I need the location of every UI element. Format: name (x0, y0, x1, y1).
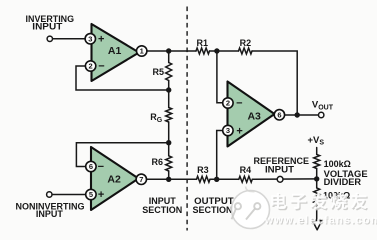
label OUTPUT SECTION (193, 196, 235, 215)
op-amp A3 (228, 82, 275, 147)
label INPUT SECTION (142, 196, 182, 215)
wire R1 to R2 (210, 50, 239, 52)
svg-text:INPUT: INPUT (32, 21, 63, 31)
ground (312, 221, 322, 230)
wire A2 output / bottom rail to R3 (147, 178, 197, 180)
wire R6 bottom lead (168, 171, 170, 179)
pin 7 of A2 (136, 174, 146, 184)
op-amp A1 (92, 24, 140, 81)
wire R3 to R4 (210, 178, 239, 180)
svg-text:+: + (98, 34, 104, 46)
node A1out/R5/R1 (166, 48, 171, 53)
svg-text:R5: R5 (152, 67, 164, 77)
svg-text:SECTION: SECTION (193, 205, 233, 215)
resistor R2 (239, 48, 253, 54)
node divider/reference (314, 176, 319, 181)
pin 5 of A2 (86, 189, 96, 199)
resistor RG (166, 108, 172, 123)
svg-text:INPUT: INPUT (36, 209, 64, 219)
svg-text:−: − (98, 161, 104, 173)
svg-text:SECTION: SECTION (142, 205, 182, 215)
resistor R6 (166, 156, 172, 171)
svg-text:6: 6 (89, 162, 93, 171)
resistor R1 (196, 48, 210, 54)
wire inverting input to A1 pin3 (53, 38, 86, 40)
svg-text:5: 5 (89, 190, 93, 199)
svg-text:R2: R2 (240, 38, 252, 48)
svg-text:6: 6 (277, 110, 281, 119)
pin 2 of A3 (223, 98, 233, 108)
wire node R3R4 up to A3 pin3 (217, 131, 223, 180)
watermark text dianzifashaoyou (271, 193, 367, 210)
pin 3 of A1 (85, 34, 95, 44)
wire A2 feedback pin6 to RG/R6 node (76, 143, 168, 167)
svg-text:2: 2 (226, 99, 230, 108)
svg-text:R4: R4 (240, 165, 252, 175)
wire A1 output / top rail to R1 (147, 50, 196, 52)
resistor R3 (197, 176, 211, 182)
pin 3 of A3 (223, 125, 233, 135)
resistor 100k top (314, 154, 320, 168)
svg-text:+: + (236, 125, 242, 137)
node R3/R4/A3pin3 (214, 177, 219, 182)
svg-text:1: 1 (140, 47, 144, 56)
svg-text:A3: A3 (247, 110, 261, 122)
svg-text:2: 2 (89, 62, 93, 71)
wire +Vs down to 100k (316, 148, 318, 155)
label REFERENCE INPUT (254, 156, 310, 175)
svg-text:100kΩ: 100kΩ (324, 159, 351, 169)
wire to ground (316, 203, 318, 220)
svg-text:DIVIDER: DIVIDER (324, 177, 362, 187)
node RG/R6 feedback A2 (166, 140, 171, 145)
pin 6 of A3 (274, 110, 284, 120)
svg-text:R3: R3 (197, 165, 209, 175)
svg-text:INPUT: INPUT (265, 164, 295, 174)
watermark logo disc (232, 187, 270, 229)
node R1/R2/A3pin2 (214, 48, 219, 53)
section divider dashed line (186, 7, 188, 231)
wire RG to R6 (168, 122, 170, 156)
terminal reference input (277, 176, 283, 182)
wire R5 to RG (168, 81, 170, 108)
svg-text:R6: R6 (152, 157, 164, 167)
pin 6 of A2 (86, 161, 96, 171)
label INVERTING INPUT (26, 14, 75, 32)
wire R4 to divider node (reference line) (252, 178, 316, 180)
resistor 100k bottom (314, 188, 320, 204)
wire 100k to divider node (316, 169, 318, 188)
svg-text:A1: A1 (108, 45, 122, 57)
svg-text:www.elecfans.com: www.elecfans.com (264, 215, 377, 227)
pin 1 of A1 (137, 46, 147, 56)
wire noninverting input to A2 pin5 (52, 194, 86, 196)
wire A1 feedback pin2 to R5/RG node (76, 66, 169, 90)
svg-text:−: − (98, 61, 104, 73)
node R6/bottom rail (166, 177, 171, 182)
op-amp A2 (91, 147, 139, 210)
svg-text:7: 7 (139, 175, 143, 184)
terminal Vout (319, 112, 324, 117)
wire R2 right and down to A3 output node (252, 51, 297, 115)
wire A3 output to Vout (285, 114, 319, 116)
watermark text dianzifashaoyou shadow (272, 194, 368, 211)
svg-text:R1: R1 (197, 38, 209, 48)
svg-text:−: − (236, 97, 242, 109)
wire node R1R2 down to A3 pin2 (217, 51, 223, 103)
resistor R4 (239, 176, 253, 182)
pin 2 of A1 (85, 61, 95, 71)
svg-text:3: 3 (88, 34, 92, 43)
label NONINVERTING INPUT (16, 201, 85, 219)
node R5/RG feedback A1 (166, 87, 171, 92)
node A3out/R2/Vout (295, 112, 300, 117)
wire R5 chain top lead (168, 51, 170, 63)
svg-text:3: 3 (226, 126, 230, 135)
terminal inverting input (47, 36, 52, 41)
resistor R5 (166, 63, 172, 81)
svg-text:A2: A2 (107, 173, 121, 185)
terminal noninverting input (47, 192, 52, 197)
svg-text:+: + (98, 189, 104, 201)
